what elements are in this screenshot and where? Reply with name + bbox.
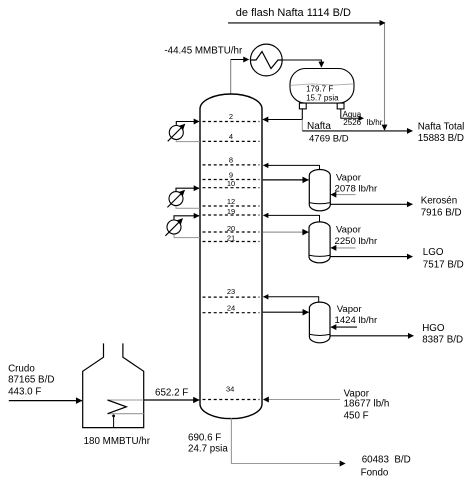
svg-text:652.2 F: 652.2 F (155, 388, 188, 399)
svg-text:4: 4 (229, 132, 233, 141)
svg-text:2526: 2526 (343, 118, 361, 127)
svg-text:8387 B/D: 8387 B/D (422, 335, 463, 346)
svg-text:60483 B/D: 60483 B/D (362, 454, 411, 465)
svg-text:de flash Nafta 1114 B/D: de flash Nafta 1114 B/D (236, 7, 351, 19)
svg-text:-44.45 MMBTU/hr: -44.45 MMBTU/hr (164, 46, 243, 57)
svg-text:Nafta Total: Nafta Total (418, 121, 465, 132)
svg-text:Kerosén: Kerosén (421, 195, 458, 206)
svg-text:Vapor: Vapor (336, 172, 362, 183)
svg-text:2078 lb/hr: 2078 lb/hr (335, 183, 378, 194)
svg-text:2250 lb/hr: 2250 lb/hr (335, 236, 378, 247)
svg-text:7517 B/D: 7517 B/D (423, 260, 464, 271)
svg-text:LGO: LGO (423, 247, 444, 258)
svg-text:2: 2 (229, 112, 233, 121)
svg-text:18677 lb/h: 18677 lb/h (344, 398, 390, 409)
svg-text:24.7 psia: 24.7 psia (188, 444, 228, 455)
svg-text:23: 23 (227, 287, 235, 296)
svg-text:1424 lb/hr: 1424 lb/hr (335, 315, 378, 326)
svg-text:34: 34 (226, 385, 234, 394)
svg-text:690.6 F: 690.6 F (188, 433, 221, 444)
svg-text:10: 10 (227, 179, 235, 188)
svg-text:Nafta: Nafta (307, 121, 331, 132)
svg-text:Vapor: Vapor (337, 304, 363, 315)
svg-text:Crudo: Crudo (8, 364, 35, 375)
svg-text:24: 24 (227, 303, 235, 312)
svg-text:19: 19 (227, 207, 235, 216)
svg-text:20: 20 (227, 224, 235, 233)
svg-text:87165 B/D: 87165 B/D (8, 374, 54, 385)
svg-text:Vapor: Vapor (336, 225, 362, 236)
svg-text:7916 B/D: 7916 B/D (421, 208, 462, 219)
svg-text:15883 B/D: 15883 B/D (418, 133, 464, 144)
svg-text:lb/hr: lb/hr (367, 118, 383, 127)
svg-text:4769 B/D: 4769 B/D (309, 133, 349, 144)
svg-text:21: 21 (227, 234, 235, 243)
svg-text:180 MMBTU/hr: 180 MMBTU/hr (84, 436, 151, 447)
svg-text:450 F: 450 F (344, 410, 369, 421)
svg-text:12: 12 (227, 197, 235, 206)
svg-text:179.7 F: 179.7 F (306, 85, 333, 94)
svg-text:15.7 psia: 15.7 psia (306, 93, 339, 102)
svg-text:HGO: HGO (422, 323, 445, 334)
svg-text:Fondo: Fondo (361, 468, 389, 479)
svg-text:8: 8 (229, 155, 233, 164)
svg-text:443.0 F: 443.0 F (8, 386, 41, 397)
